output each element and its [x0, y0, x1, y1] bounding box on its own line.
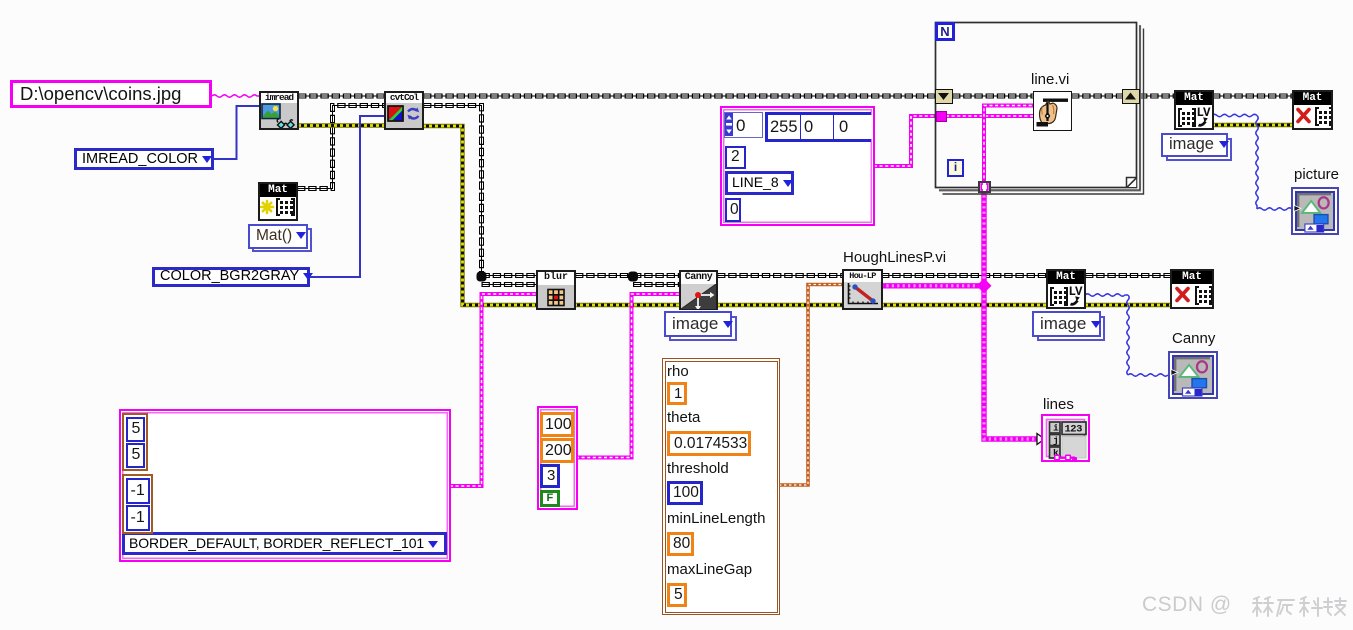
- enum image (below Canny): [669, 316, 737, 341]
- label HoughLinesP.vi: [843, 249, 946, 266]
- cluster constant: blur kernel size / anchor / border type: [119, 409, 451, 562]
- wire: Mat chain shift register to line.vi: [952, 94, 1034, 99]
- cluster anchor (-1,-1): [122, 474, 153, 534]
- enum constant LINE_8: [725, 171, 794, 195]
- junction: lines array branch point: [977, 278, 992, 293]
- wire: color scalar cluster to loop tunnel (pink cluster wire): [874, 116, 938, 166]
- right shift register (up arrow): [1122, 89, 1140, 104]
- numeric constant -1: [126, 478, 150, 504]
- wire: Mat chain cvtCol to for-loop left shift register: [423, 94, 937, 99]
- junction: Mat wire branch dot 1: [477, 272, 487, 282]
- cluster constant: HoughLinesP parameters: [662, 358, 780, 615]
- indicator lines (array of line segments): [1041, 414, 1090, 462]
- wire: error wire cvtCol down and right to blur: [423, 126, 538, 305]
- junction: Mat wire branch dot 2: [628, 272, 638, 282]
- enum constant COLOR_BGR2GRAY: [152, 267, 310, 287]
- numeric constant -1: [126, 505, 150, 531]
- label minLineLength: [667, 510, 765, 527]
- wire: HoughLinesP params cluster to node (orange cluster wire): [779, 285, 843, 486]
- node Mat to LV image 1: [1174, 90, 1214, 130]
- numeric constant 80: [667, 532, 694, 556]
- loop tunnel (color cluster, magenta square): [936, 111, 947, 122]
- string constant file path D:\opencv\coins.jpg: [10, 80, 212, 108]
- numeric constant 0.0174533 (theta): [667, 431, 751, 456]
- cluster ksize (5,5): [122, 413, 148, 471]
- wire: error wire imread to cvtCol (olive): [298, 123, 385, 127]
- wire: error wire Canny to HoughLinesP: [717, 303, 843, 307]
- numeric constant 3 (aperture): [540, 464, 560, 488]
- label maxLineGap: [667, 561, 752, 578]
- wire: kernel cluster to blur (pink cluster wire): [450, 294, 538, 486]
- label rho: [667, 363, 689, 380]
- node Mat release 2: [1170, 269, 1214, 309]
- wire: error wire HoughLinesP to Mat-to-LV 2: [881, 303, 1047, 307]
- wire: lines array HoughLinesP to junction (magenta array wire): [881, 283, 984, 288]
- wire: IMREAD_COLOR enum to imread (blue): [214, 106, 260, 159]
- wire: Mat chain junction 2 to Canny inputs: [633, 276, 680, 285]
- label picture: [1294, 166, 1339, 183]
- wire: Mat chain Mat-to-LV to Mat release node: [1212, 94, 1293, 99]
- numeric spinner 0: [724, 112, 763, 138]
- numeric constant 1 (rho): [667, 382, 687, 405]
- wire: picture wire Mat-to-LV 2 to Canny indicator (blue wavy): [1085, 294, 1168, 376]
- wire: Mat chain cvtCol output down to junction: [423, 106, 482, 273]
- label Canny (indicator): [1172, 330, 1215, 347]
- wire: picture wire Mat-to-LV 1 to picture indicator (blue wavy): [1212, 114, 1292, 210]
- wire: Mat chain junction to blur inputs: [482, 276, 539, 285]
- wire: indexed line element to line.vi input: [984, 106, 1034, 185]
- node imread: [259, 91, 299, 130]
- wire: Mat chain Canny to HoughLinesP: [717, 273, 843, 278]
- svg-text:123: 123: [1065, 424, 1083, 436]
- cluster constant: canny thresholds 100/200/3/F: [537, 406, 578, 510]
- wire: lines array vertical branch up to loop and down to indicator: [984, 190, 1037, 439]
- wire: arrow into lines indicator: [1037, 434, 1045, 445]
- for loop page curl: [1127, 178, 1137, 188]
- wire: string path wire (pink wavy): [212, 95, 260, 97]
- label lines: [1043, 396, 1074, 413]
- svg-text:j: j: [1053, 435, 1059, 446]
- node blur: [536, 270, 576, 310]
- wire: Mat chain right shift register to Mat-to-LV node: [1139, 94, 1175, 99]
- numeric constant 2 (thickness): [725, 146, 746, 169]
- enum image 2: [1037, 316, 1105, 341]
- watermark CSDN: [1142, 593, 1232, 617]
- cluster RGB scalar 255 0 0: [765, 112, 871, 142]
- wire: Mat chain blur to junction 2: [575, 273, 633, 278]
- numeric constant 100 (threshold1): [540, 412, 574, 437]
- node Mat release 1: [1292, 90, 1333, 130]
- sub VI line.vi icon: [1033, 91, 1072, 131]
- label line.vi: [1031, 71, 1069, 88]
- wire: Mat chain Mat-to-LV 2 to Mat release 2: [1085, 273, 1171, 278]
- enum image 1: [1166, 138, 1232, 161]
- for loop N frame: [936, 23, 1144, 195]
- wire: Mat chain HoughLinesP to Mat-to-LV 2: [881, 273, 1047, 278]
- wire: loop tunnel to line.vi color input: [946, 114, 1034, 118]
- node Hou-LP (HoughLinesP): [842, 269, 883, 310]
- svg-text:0: 0: [736, 116, 745, 135]
- wire: error wire Mat-to-LV 1 to Mat release 1: [1212, 123, 1293, 127]
- node Mat constructor constant: [258, 182, 298, 221]
- for loop count terminal N: [935, 22, 955, 41]
- numeric constant 200 (threshold2): [540, 438, 574, 463]
- wire: Mat chain Mat constant up to cvtCol second input: [297, 106, 385, 189]
- svg-text:i: i: [1053, 423, 1059, 434]
- numeric constant 5: [126, 417, 145, 442]
- for loop iteration terminal i: [947, 159, 964, 177]
- ring constant Mat(): [252, 228, 312, 252]
- node cvtCol (cvtColor): [384, 91, 424, 130]
- wire: COLOR_BGR2GRAY enum to cvtCol (blue): [309, 116, 385, 277]
- wire: error wire Mat-to-LV 2 to Mat release 2: [1085, 303, 1171, 307]
- label threshold: [667, 460, 729, 477]
- enum constant BORDER_DEFAULT, BORDER_REFLECT_101: [122, 532, 447, 555]
- numeric constant 5: [667, 583, 687, 607]
- left shift register (down arrow): [935, 89, 953, 104]
- numeric constant 0 (shift): [725, 198, 741, 222]
- boolean constant F (L2gradient false): [540, 490, 560, 507]
- wire: canny params cluster to Canny (pink cluster wire): [576, 294, 680, 458]
- label theta: [667, 409, 700, 426]
- node Mat to LV image 2: [1046, 269, 1086, 309]
- wire: Mat chain imread to cvtCol: [298, 94, 385, 99]
- indicator Canny (image display): [1168, 351, 1218, 399]
- node Canny: [679, 270, 718, 310]
- cluster constant: line color / thickness / type / shift: [720, 106, 875, 226]
- wire: error wire blur to Canny: [574, 303, 680, 307]
- wire: Mat chain line.vi to right shift register: [1071, 94, 1124, 99]
- enum constant IMREAD_COLOR: [74, 148, 214, 170]
- indicator picture (image display): [1291, 187, 1339, 235]
- loop auto-index tunnel (bottom): [978, 181, 991, 193]
- numeric constant 100 (threshold): [667, 481, 703, 505]
- numeric constant 5: [126, 443, 145, 468]
